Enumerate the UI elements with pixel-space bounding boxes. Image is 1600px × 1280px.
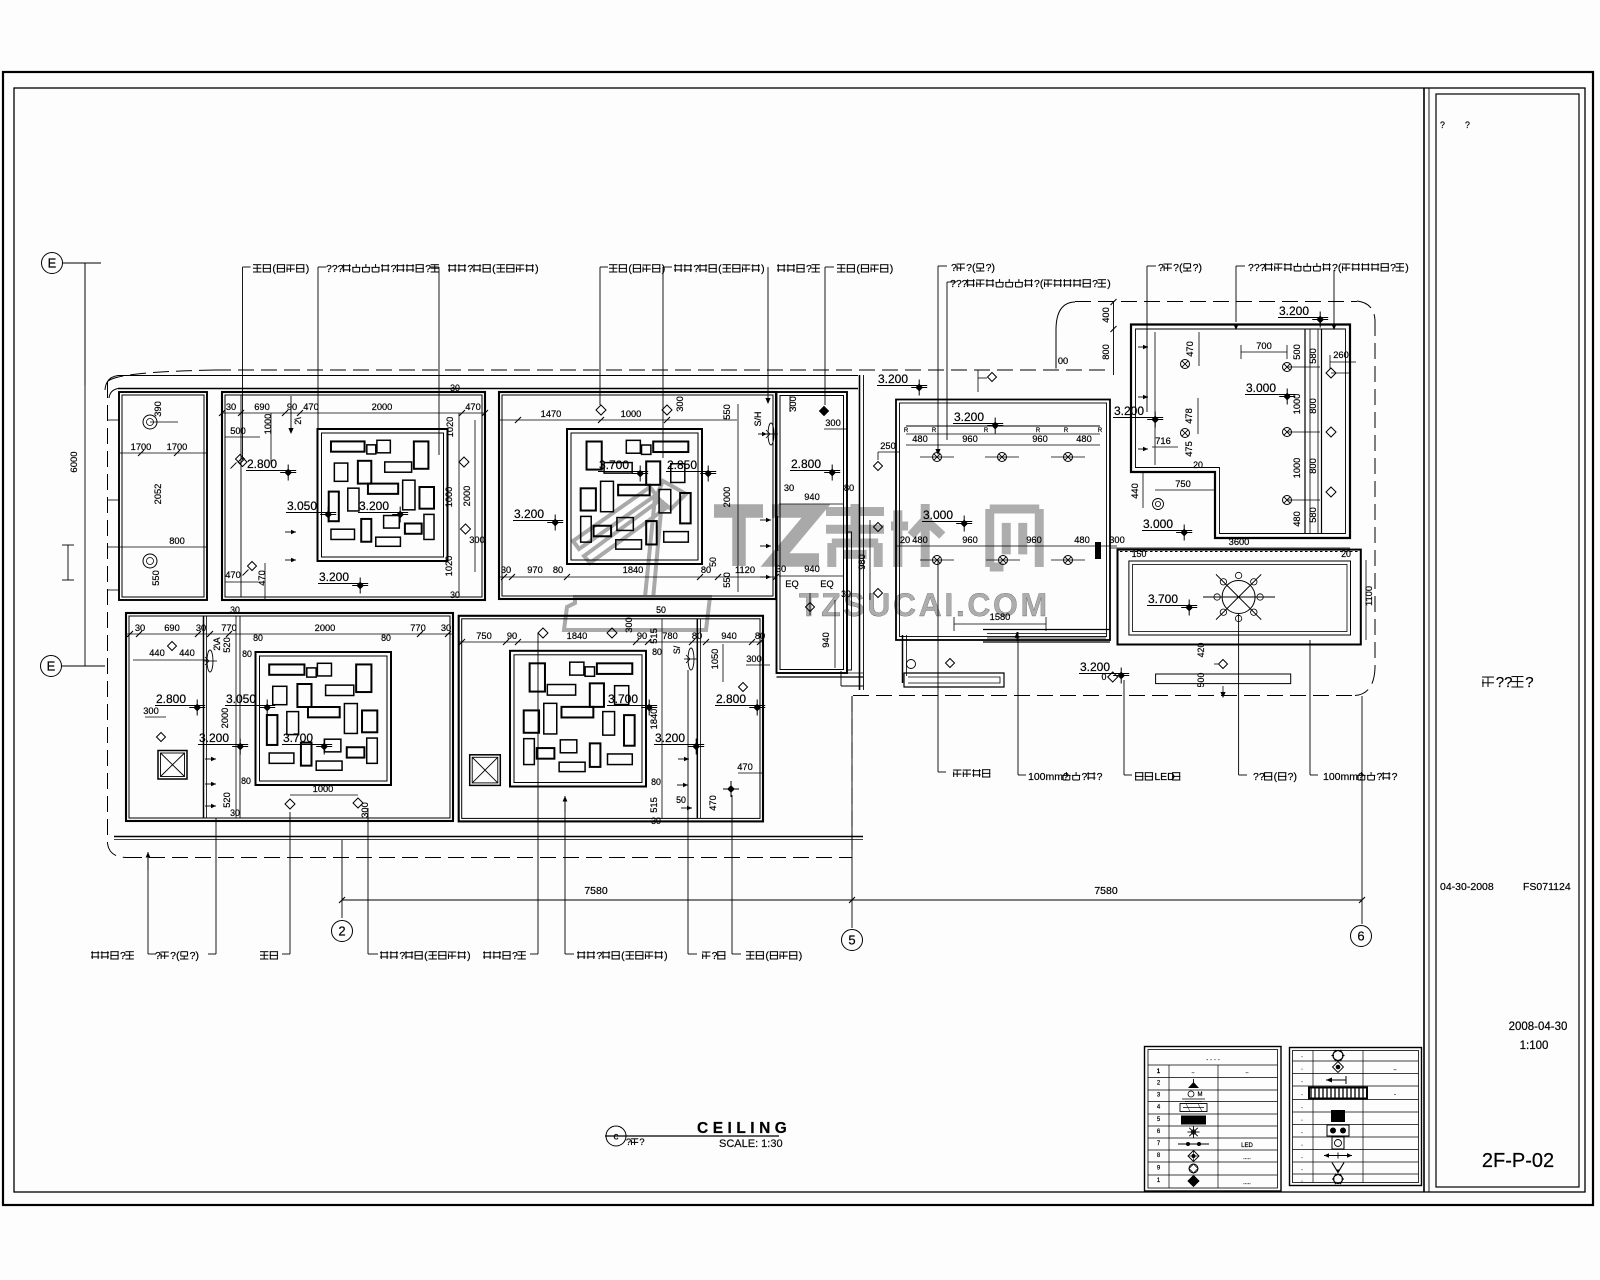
svg-text:500: 500 xyxy=(1292,344,1302,360)
svg-text:R: R xyxy=(1098,428,1103,434)
svg-text:1700: 1700 xyxy=(167,442,188,452)
svg-text:3.700: 3.700 xyxy=(599,458,629,472)
room H top dims xyxy=(1241,351,1287,353)
svg-text:(: ( xyxy=(628,263,632,275)
svg-text:2.800: 2.800 xyxy=(247,457,277,471)
svg-text:300: 300 xyxy=(746,654,762,664)
svg-text:30: 30 xyxy=(651,816,661,826)
top wall band xyxy=(118,375,858,377)
room C lamps xyxy=(596,405,606,415)
svg-text:?(: ?( xyxy=(1173,262,1183,274)
svg-text:470: 470 xyxy=(737,762,753,772)
svg-text:?: ? xyxy=(626,1137,631,1147)
room H 3600 dim xyxy=(1131,547,1350,549)
svg-text:3.200: 3.200 xyxy=(359,499,389,513)
room E leaders down xyxy=(147,852,149,870)
room H lamps right column xyxy=(1283,363,1292,372)
room F symbols xyxy=(538,628,548,638)
svg-text:?: ? xyxy=(1082,771,1088,783)
label 羊皮?吊灯(成品定制) b1 xyxy=(367,946,369,954)
svg-text:???: ??? xyxy=(950,278,968,290)
svg-text:50: 50 xyxy=(676,795,686,805)
svg-text:(: ( xyxy=(1274,771,1278,783)
svg-text:3.200: 3.200 xyxy=(655,731,685,745)
svg-text:2.800: 2.800 xyxy=(791,457,821,471)
svg-text:1840: 1840 xyxy=(623,565,644,575)
svg-text:770: 770 xyxy=(221,623,237,633)
svg-text:5: 5 xyxy=(848,933,855,948)
svg-text:04-30-2008: 04-30-2008 xyxy=(1440,881,1494,893)
svg-text:c: c xyxy=(614,1132,619,1143)
svg-text:440: 440 xyxy=(179,648,195,658)
room E 1000 dim xyxy=(290,794,358,796)
label 骨色乳?漆 b2 xyxy=(537,946,539,954)
svg-text:1020: 1020 xyxy=(444,556,454,577)
dashed boundary right block xyxy=(1075,301,1357,303)
svg-text:30: 30 xyxy=(450,383,460,393)
svg-text:50: 50 xyxy=(708,557,718,567)
watermark TZ letters xyxy=(714,511,819,566)
axis dim line 6000 xyxy=(84,263,86,666)
svg-text:30: 30 xyxy=(841,589,851,599)
svg-text:470: 470 xyxy=(465,402,481,412)
svg-text:716: 716 xyxy=(1155,436,1171,446)
svg-text:80: 80 xyxy=(253,633,263,643)
label 羊皮?吊灯(成品定制) 2 xyxy=(662,267,664,458)
svg-text:30: 30 xyxy=(196,623,206,633)
room C bottom dim row xyxy=(499,576,776,578)
room D shaft xyxy=(847,532,852,670)
svg-text:80: 80 xyxy=(651,777,661,787)
svg-text:EQ: EQ xyxy=(820,579,833,589)
axis circle E top xyxy=(42,253,63,274)
svg-text:3.000: 3.000 xyxy=(1246,381,1276,395)
svg-text:?): ?) xyxy=(1288,771,1297,783)
svg-text:(: ( xyxy=(856,263,860,275)
svg-text:80: 80 xyxy=(692,631,702,641)
svg-text:??: ?? xyxy=(1496,674,1513,691)
svg-text:1000: 1000 xyxy=(444,487,454,508)
room F outer xyxy=(459,616,763,822)
svg-text:300: 300 xyxy=(360,802,370,818)
room B lamps xyxy=(236,455,245,464)
svg-text:(: ( xyxy=(492,263,496,275)
svg-text:): ) xyxy=(1405,262,1409,274)
svg-text:260: 260 xyxy=(1333,350,1349,360)
svg-text:550: 550 xyxy=(151,570,161,586)
svg-text:?: ? xyxy=(712,950,718,962)
svg-text:550: 550 xyxy=(722,572,732,588)
label 羊皮?吊灯(成品定制) 1 xyxy=(438,267,440,455)
label ???骨石膏板吊?骨色乳?漆 xyxy=(317,267,319,505)
svg-text:..: .. xyxy=(1393,1066,1397,1072)
svg-text:30: 30 xyxy=(441,623,451,633)
svg-text:?: ? xyxy=(806,263,812,275)
room B top dim row xyxy=(222,412,485,414)
svg-text:): ) xyxy=(1107,278,1111,290)
label 骨色乳?漆 top xyxy=(767,267,769,400)
room F leaders down xyxy=(537,633,539,946)
svg-text:?: ? xyxy=(951,262,957,274)
svg-text:3.200: 3.200 xyxy=(878,372,908,386)
svg-text:(: ( xyxy=(424,950,428,962)
room I fan lamp xyxy=(1222,581,1255,614)
room I outer xyxy=(1118,550,1361,645)
room B inner ceiling line xyxy=(240,395,242,597)
title block xyxy=(1423,88,1425,1192)
svg-text:1840: 1840 xyxy=(649,709,659,730)
svg-text:?: ? xyxy=(1392,771,1398,783)
label 100mm?石膏?走? 2 xyxy=(1309,762,1311,775)
svg-text:80: 80 xyxy=(381,633,391,643)
room B misc dims xyxy=(225,436,260,438)
svg-text:): ) xyxy=(467,950,471,962)
svg-text:3.000: 3.000 xyxy=(1143,517,1173,531)
svg-text:30: 30 xyxy=(230,605,240,615)
svg-text:3.200: 3.200 xyxy=(1279,304,1309,318)
svg-text:940: 940 xyxy=(804,564,820,574)
svg-text:?: ? xyxy=(1525,674,1533,691)
room E top dim row xyxy=(126,633,453,635)
svg-text:300: 300 xyxy=(1109,535,1125,545)
svg-text:770: 770 xyxy=(410,623,426,633)
room C outer xyxy=(499,392,776,599)
svg-text:20: 20 xyxy=(900,535,910,545)
watermark CJK 素材网 xyxy=(826,504,884,567)
svg-text:800: 800 xyxy=(169,536,185,546)
svg-text:800: 800 xyxy=(1101,344,1111,360)
room D outer xyxy=(777,392,848,673)
svg-text:1580: 1580 xyxy=(990,612,1011,622)
svg-text:470: 470 xyxy=(708,795,718,811)
svg-text:?(: ?( xyxy=(170,950,180,962)
block right wall xyxy=(859,375,861,690)
svg-text:2008-04-30: 2008-04-30 xyxy=(1509,1021,1568,1033)
svg-text:30: 30 xyxy=(501,565,511,575)
room C top dims xyxy=(499,419,737,421)
svg-text:470: 470 xyxy=(257,570,267,586)
room E grid ceiling xyxy=(256,652,392,785)
svg-text:R: R xyxy=(984,428,989,434)
svg-text:?: ? xyxy=(512,950,518,962)
svg-text:3.200: 3.200 xyxy=(1080,660,1110,674)
svg-text:2.850: 2.850 xyxy=(667,458,697,472)
svg-text:): ) xyxy=(306,263,310,275)
svg-text:2F-P-02: 2F-P-02 xyxy=(1482,1150,1554,1172)
room B small arrows xyxy=(285,531,296,533)
svg-text:CEILING: CEILING xyxy=(697,1120,791,1137)
svg-text:?(: ?( xyxy=(1034,278,1044,290)
svg-text:00: 00 xyxy=(1058,356,1068,366)
svg-text:960: 960 xyxy=(1026,535,1042,545)
svg-text:470: 470 xyxy=(303,402,319,412)
room B grid ceiling xyxy=(318,429,448,561)
svg-text:80: 80 xyxy=(241,776,251,786)
svg-text:R: R xyxy=(904,428,909,434)
svg-text:?: ? xyxy=(1465,120,1470,130)
svg-text:30: 30 xyxy=(784,483,794,493)
corner solid soffit curve near right block xyxy=(1056,302,1075,369)
room H interior columns xyxy=(1304,329,1306,533)
svg-text:750: 750 xyxy=(1175,479,1191,489)
room1 ceiling circles xyxy=(143,415,157,429)
room H left dim line xyxy=(1154,332,1156,465)
svg-text:. . . .: . . . . xyxy=(1206,1055,1220,1062)
svg-text:3.200: 3.200 xyxy=(1114,404,1144,418)
svg-text:20: 20 xyxy=(1341,549,1351,559)
svg-text:3.700: 3.700 xyxy=(1148,592,1178,606)
dashed boundary left block xyxy=(215,369,1110,371)
svg-text:LED: LED xyxy=(1241,1143,1253,1149)
room F grid xyxy=(510,651,646,787)
svg-text:3.700: 3.700 xyxy=(283,731,313,745)
svg-text:3.200: 3.200 xyxy=(514,507,544,521)
svg-text:?: ? xyxy=(391,263,397,275)
svg-text:475: 475 xyxy=(1184,441,1194,457)
room E partitions xyxy=(203,616,205,818)
svg-text:80: 80 xyxy=(844,483,854,493)
room I leader lines down xyxy=(1238,613,1240,762)
svg-text:?: ? xyxy=(1097,771,1103,783)
svg-text:): ) xyxy=(535,263,539,275)
svg-text:480: 480 xyxy=(912,434,928,444)
legend table 2 xyxy=(1290,1048,1422,1186)
svg-text:2000: 2000 xyxy=(722,487,732,508)
svg-text:?(: ?( xyxy=(966,262,976,274)
svg-text:M: M xyxy=(1198,1092,1203,1098)
room G top interior xyxy=(906,425,1100,427)
svg-text:): ) xyxy=(664,950,668,962)
svg-text:E: E xyxy=(48,256,57,271)
room G 1580 dim xyxy=(954,623,1046,625)
label ???骨防水石膏板吊? r1 xyxy=(946,282,948,440)
svg-text:?: ? xyxy=(1092,278,1098,290)
legend table 1 xyxy=(1145,1047,1282,1192)
wall chunk right of room G xyxy=(1095,542,1101,559)
room B outer xyxy=(222,392,485,600)
svg-text:R: R xyxy=(1064,428,1069,434)
svg-text:960: 960 xyxy=(962,434,978,444)
svg-text:?): ?) xyxy=(986,262,995,274)
svg-text:TZSUCAI.COM: TZSUCAI.COM xyxy=(799,587,1050,623)
svg-text:30: 30 xyxy=(135,623,145,633)
ceiling title xyxy=(606,1126,626,1146)
room H outer walls xyxy=(1131,325,1350,539)
svg-text:(: ( xyxy=(621,950,625,962)
svg-text:480: 480 xyxy=(1292,511,1302,527)
svg-text:1050: 1050 xyxy=(710,649,720,670)
svg-text:2000: 2000 xyxy=(315,623,336,633)
svg-text:1000: 1000 xyxy=(1292,458,1302,479)
svg-text:470: 470 xyxy=(1185,341,1195,357)
svg-text:?): ?) xyxy=(1193,262,1202,274)
svg-text:???: ??? xyxy=(326,263,344,275)
svg-text:30: 30 xyxy=(450,590,460,600)
label ??灯(特?) xyxy=(1238,762,1240,775)
label 羊皮?吊灯(成品定制) b2 xyxy=(564,946,566,954)
room F Xbox xyxy=(470,755,501,786)
room 1 left narrow room xyxy=(119,392,207,600)
svg-text:7580: 7580 xyxy=(584,885,608,897)
svg-text:(: ( xyxy=(718,263,722,275)
svg-text:1000: 1000 xyxy=(1292,394,1302,415)
svg-text:478: 478 xyxy=(1184,408,1194,424)
svg-text:.....: ..... xyxy=(1243,1180,1251,1186)
svg-text:780: 780 xyxy=(662,631,678,641)
svg-text:80: 80 xyxy=(755,631,765,641)
svg-text:?: ? xyxy=(1158,262,1164,274)
svg-text:300: 300 xyxy=(624,617,634,633)
svg-text:3.000: 3.000 xyxy=(923,508,953,522)
svg-text:150: 150 xyxy=(1132,549,1147,559)
label 防潮筒灯 xyxy=(937,560,939,772)
svg-text:90: 90 xyxy=(637,631,647,641)
svg-text:FS071124: FS071124 xyxy=(1523,881,1571,893)
svg-text:500: 500 xyxy=(1196,673,1206,688)
svg-text:250: 250 xyxy=(880,441,896,451)
label 射灯 b xyxy=(289,946,291,954)
svg-text:1000: 1000 xyxy=(621,409,642,419)
svg-text:S/H: S/H xyxy=(753,412,763,427)
svg-text:480: 480 xyxy=(1076,434,1092,444)
svg-text:1700: 1700 xyxy=(131,442,152,452)
svg-text:?: ? xyxy=(1377,771,1383,783)
svg-text:690: 690 xyxy=(254,402,270,412)
svg-text:??: ?? xyxy=(1253,771,1265,783)
svg-text:80: 80 xyxy=(652,647,662,657)
room C grid ceiling xyxy=(567,429,702,564)
svg-text:): ) xyxy=(890,263,894,275)
svg-text:515: 515 xyxy=(649,797,659,813)
room G dim row2 xyxy=(896,545,1117,547)
room E arrows xyxy=(205,758,216,760)
svg-text:2000: 2000 xyxy=(372,402,393,412)
svg-text:1000: 1000 xyxy=(313,784,334,794)
svg-text:390: 390 xyxy=(153,401,163,417)
svg-text:970: 970 xyxy=(527,565,543,575)
svg-text:2000: 2000 xyxy=(462,486,472,507)
axis circle 5 xyxy=(842,930,863,951)
svg-text:520: 520 xyxy=(222,792,232,808)
svg-text:6: 6 xyxy=(1357,929,1364,944)
svg-text:(: ( xyxy=(765,950,769,962)
svg-text:?: ? xyxy=(1440,120,1445,130)
svg-text:2: 2 xyxy=(338,924,345,939)
svg-text:?: ? xyxy=(120,950,126,962)
svg-text:30: 30 xyxy=(230,808,240,818)
svg-text:R: R xyxy=(932,428,937,434)
label ?排?(待?) b xyxy=(215,946,217,954)
room F vertical dim line xyxy=(661,619,663,818)
svg-text:2052: 2052 xyxy=(153,484,163,505)
svg-text:?: ? xyxy=(596,950,602,962)
svg-text:..: .. xyxy=(1191,1069,1195,1075)
svg-text:520: 520 xyxy=(222,637,232,653)
svg-text:1:100: 1:100 xyxy=(1520,1040,1549,1052)
svg-text:940: 940 xyxy=(804,492,820,502)
label 射灯(牛眼灯) b xyxy=(731,946,733,954)
svg-text:80: 80 xyxy=(553,565,563,575)
svg-text:470: 470 xyxy=(225,570,241,580)
svg-text:6000: 6000 xyxy=(69,451,80,472)
label ?排?(待?) r1 xyxy=(937,266,939,450)
svg-text:?: ? xyxy=(693,263,699,275)
svg-text:?: ? xyxy=(399,950,405,962)
svg-text:80: 80 xyxy=(242,649,252,659)
label 暗藏LED灯 xyxy=(1123,680,1125,775)
svg-text:420: 420 xyxy=(1196,643,1206,658)
svg-text:940: 940 xyxy=(721,631,737,641)
svg-text:30: 30 xyxy=(226,402,236,412)
svg-text:(: ( xyxy=(272,263,276,275)
svg-text:960: 960 xyxy=(1032,434,1048,444)
small door arc left xyxy=(67,545,69,580)
axis circle 2 xyxy=(332,921,353,942)
svg-text:SCALE: 1:30: SCALE: 1:30 xyxy=(719,1138,783,1150)
svg-text:690: 690 xyxy=(164,623,180,633)
svg-text:3600: 3600 xyxy=(1229,537,1250,547)
svg-text:440: 440 xyxy=(149,648,165,658)
svg-text:1000: 1000 xyxy=(263,414,273,435)
svg-text:2.800: 2.800 xyxy=(156,692,186,706)
svg-text:940: 940 xyxy=(821,632,831,648)
svg-text:3.700: 3.700 xyxy=(608,692,638,706)
svg-text:S/: S/ xyxy=(672,645,682,654)
svg-text:300: 300 xyxy=(469,535,485,545)
label 射灯(牛眼灯) 1 xyxy=(242,267,244,460)
below room I shelf xyxy=(1156,674,1291,684)
svg-text:): ) xyxy=(799,950,803,962)
svg-text:500: 500 xyxy=(230,426,246,436)
svg-text:750: 750 xyxy=(476,631,492,641)
svg-text:480: 480 xyxy=(912,535,928,545)
label 射灯(牛眼灯) 3 xyxy=(824,267,826,405)
room F partition xyxy=(696,619,698,818)
label 100mm?石膏?走? 1 xyxy=(1017,632,1019,775)
svg-text:700: 700 xyxy=(1256,341,1272,351)
svg-text:300: 300 xyxy=(825,418,841,428)
label 回?口 xyxy=(687,946,689,954)
watermark logo xyxy=(564,481,710,630)
bottom outer wall band xyxy=(114,836,863,838)
room E Xbox column xyxy=(158,751,187,780)
svg-text:?: ? xyxy=(155,950,161,962)
svg-text:???: ??? xyxy=(1248,262,1266,274)
bottom axis dimension line xyxy=(342,899,1362,901)
svg-text:20: 20 xyxy=(1193,460,1203,470)
room D mid dims xyxy=(779,503,844,505)
svg-text:3.050: 3.050 xyxy=(226,692,256,706)
svg-text:800: 800 xyxy=(1308,458,1318,474)
svg-text:90: 90 xyxy=(287,402,297,412)
room G bottom-left L soffit xyxy=(902,635,904,683)
svg-text:?): ?) xyxy=(190,950,199,962)
svg-text:1100: 1100 xyxy=(1364,586,1374,606)
svg-text:2\: 2\ xyxy=(293,417,303,425)
label ?排?(待?) r2 xyxy=(1146,266,1148,412)
svg-text:2000: 2000 xyxy=(220,708,230,729)
svg-text:.....: ..... xyxy=(1243,1155,1251,1161)
svg-text:440: 440 xyxy=(1130,483,1140,499)
svg-text:90: 90 xyxy=(507,631,517,641)
svg-text:?: ? xyxy=(639,1137,644,1147)
svg-text:580: 580 xyxy=(1308,348,1318,364)
svg-text:): ) xyxy=(662,263,666,275)
svg-text:): ) xyxy=(761,263,765,275)
axis circle 6 xyxy=(1351,926,1372,947)
room G dim row1 xyxy=(906,433,1100,435)
svg-text:?: ? xyxy=(425,263,431,275)
